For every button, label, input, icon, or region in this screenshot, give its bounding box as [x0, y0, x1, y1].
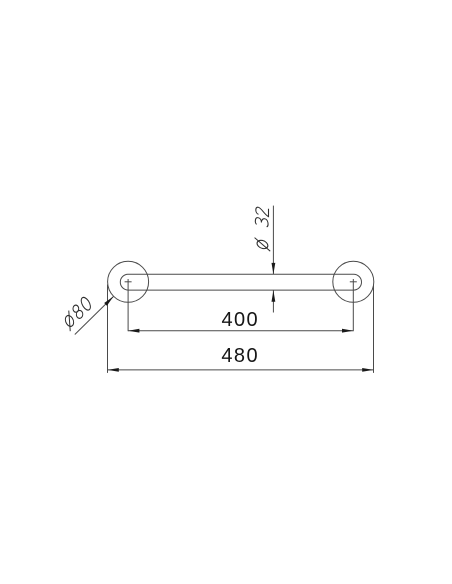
extension line right outer (480): [373, 285, 375, 373]
arrowhead Ø32 down: [272, 263, 276, 274]
center mark right: [350, 281, 357, 283]
dimension line 400: [128, 330, 353, 332]
arrowhead 480 right: [362, 368, 373, 372]
arrowhead 400 right: [342, 329, 353, 333]
arrowhead 480 left: [108, 368, 119, 372]
extension line left center (400): [127, 279, 129, 331]
svg-text:480: 480: [221, 345, 259, 367]
dim text Ø32 (rotated, stroke glyphs): [255, 206, 271, 251]
center mark left: [125, 281, 132, 283]
svg-text:400: 400: [222, 309, 260, 331]
dimension line Ø32 lower: [272, 290, 274, 312]
tube body (Ø32 bar, stadium outline): [120, 274, 361, 290]
flange circle right (Ø80): [333, 261, 374, 302]
flange circle left (Ø80): [108, 261, 149, 302]
arrowhead leader Ø80: [104, 296, 113, 305]
leader line Ø80: [75, 297, 114, 335]
arrowhead Ø32 up: [272, 290, 276, 301]
dimension line 480: [108, 369, 374, 371]
extension line right center (400): [352, 279, 354, 331]
dim text Ø80 (rotated leader label, stroke glyphs): [59, 295, 95, 331]
dimension line Ø32 upper: [272, 206, 274, 275]
extension line left outer (480): [107, 285, 109, 373]
arrowhead 400 left: [128, 329, 139, 333]
